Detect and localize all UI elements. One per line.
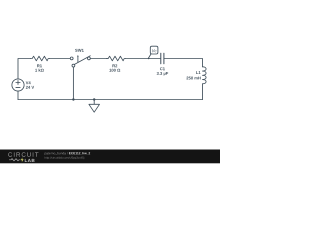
wire switch right contact to R2 — [90, 58, 107, 60]
caption url — [45, 157, 84, 160]
value 1 kOhm — [35, 69, 44, 72]
label C1 — [160, 67, 165, 70]
bottom rail wire — [18, 99, 203, 101]
value 3.3 uF — [157, 72, 168, 76]
caption title ECE112_hw_2 — [69, 152, 90, 155]
probe Vc pointer — [149, 54, 151, 58]
probe label Vc — [152, 49, 156, 52]
caption username — [45, 152, 68, 155]
value 100 Ohm — [109, 69, 120, 72]
resistor R2 — [107, 56, 126, 61]
wire source bottom — [17, 91, 19, 99]
ground — [93, 100, 95, 105]
CircuitLab watermark line 2 — [9, 159, 21, 161]
switch SW1 actuator arrow — [77, 56, 79, 62]
switch SW1 lever — [75, 56, 91, 65]
watermark LAB — [25, 159, 35, 162]
wire capacitor to top-right corner — [164, 59, 203, 67]
label SW1 — [75, 49, 84, 52]
wire switch bottom throw down to rail — [72, 67, 74, 100]
wire R2 to capacitor — [125, 58, 160, 60]
footer bar — [0, 150, 220, 164]
capacitor C1 plates — [160, 53, 162, 63]
junction node switch-rail — [72, 98, 74, 100]
probe Vc flag box — [150, 46, 158, 54]
resistor R1 — [31, 56, 50, 61]
junction node ground-rail — [93, 98, 95, 100]
voltage source V4 — [12, 79, 24, 91]
value 250 mH — [186, 77, 200, 80]
label V4 — [26, 81, 31, 84]
value 24 V — [26, 86, 34, 89]
wire R1 to switch — [49, 58, 70, 60]
watermark lightning bolt — [21, 157, 24, 162]
wire top-left from source to R1 — [18, 59, 31, 79]
switch SW1 contacts — [70, 57, 73, 60]
inductor L1 coils — [203, 67, 207, 84]
watermark CIRCUIT — [8, 152, 38, 156]
label L1 — [196, 71, 200, 74]
wire inductor to bottom rail — [202, 84, 204, 100]
label R1 — [37, 64, 42, 67]
label R2 — [112, 64, 117, 67]
